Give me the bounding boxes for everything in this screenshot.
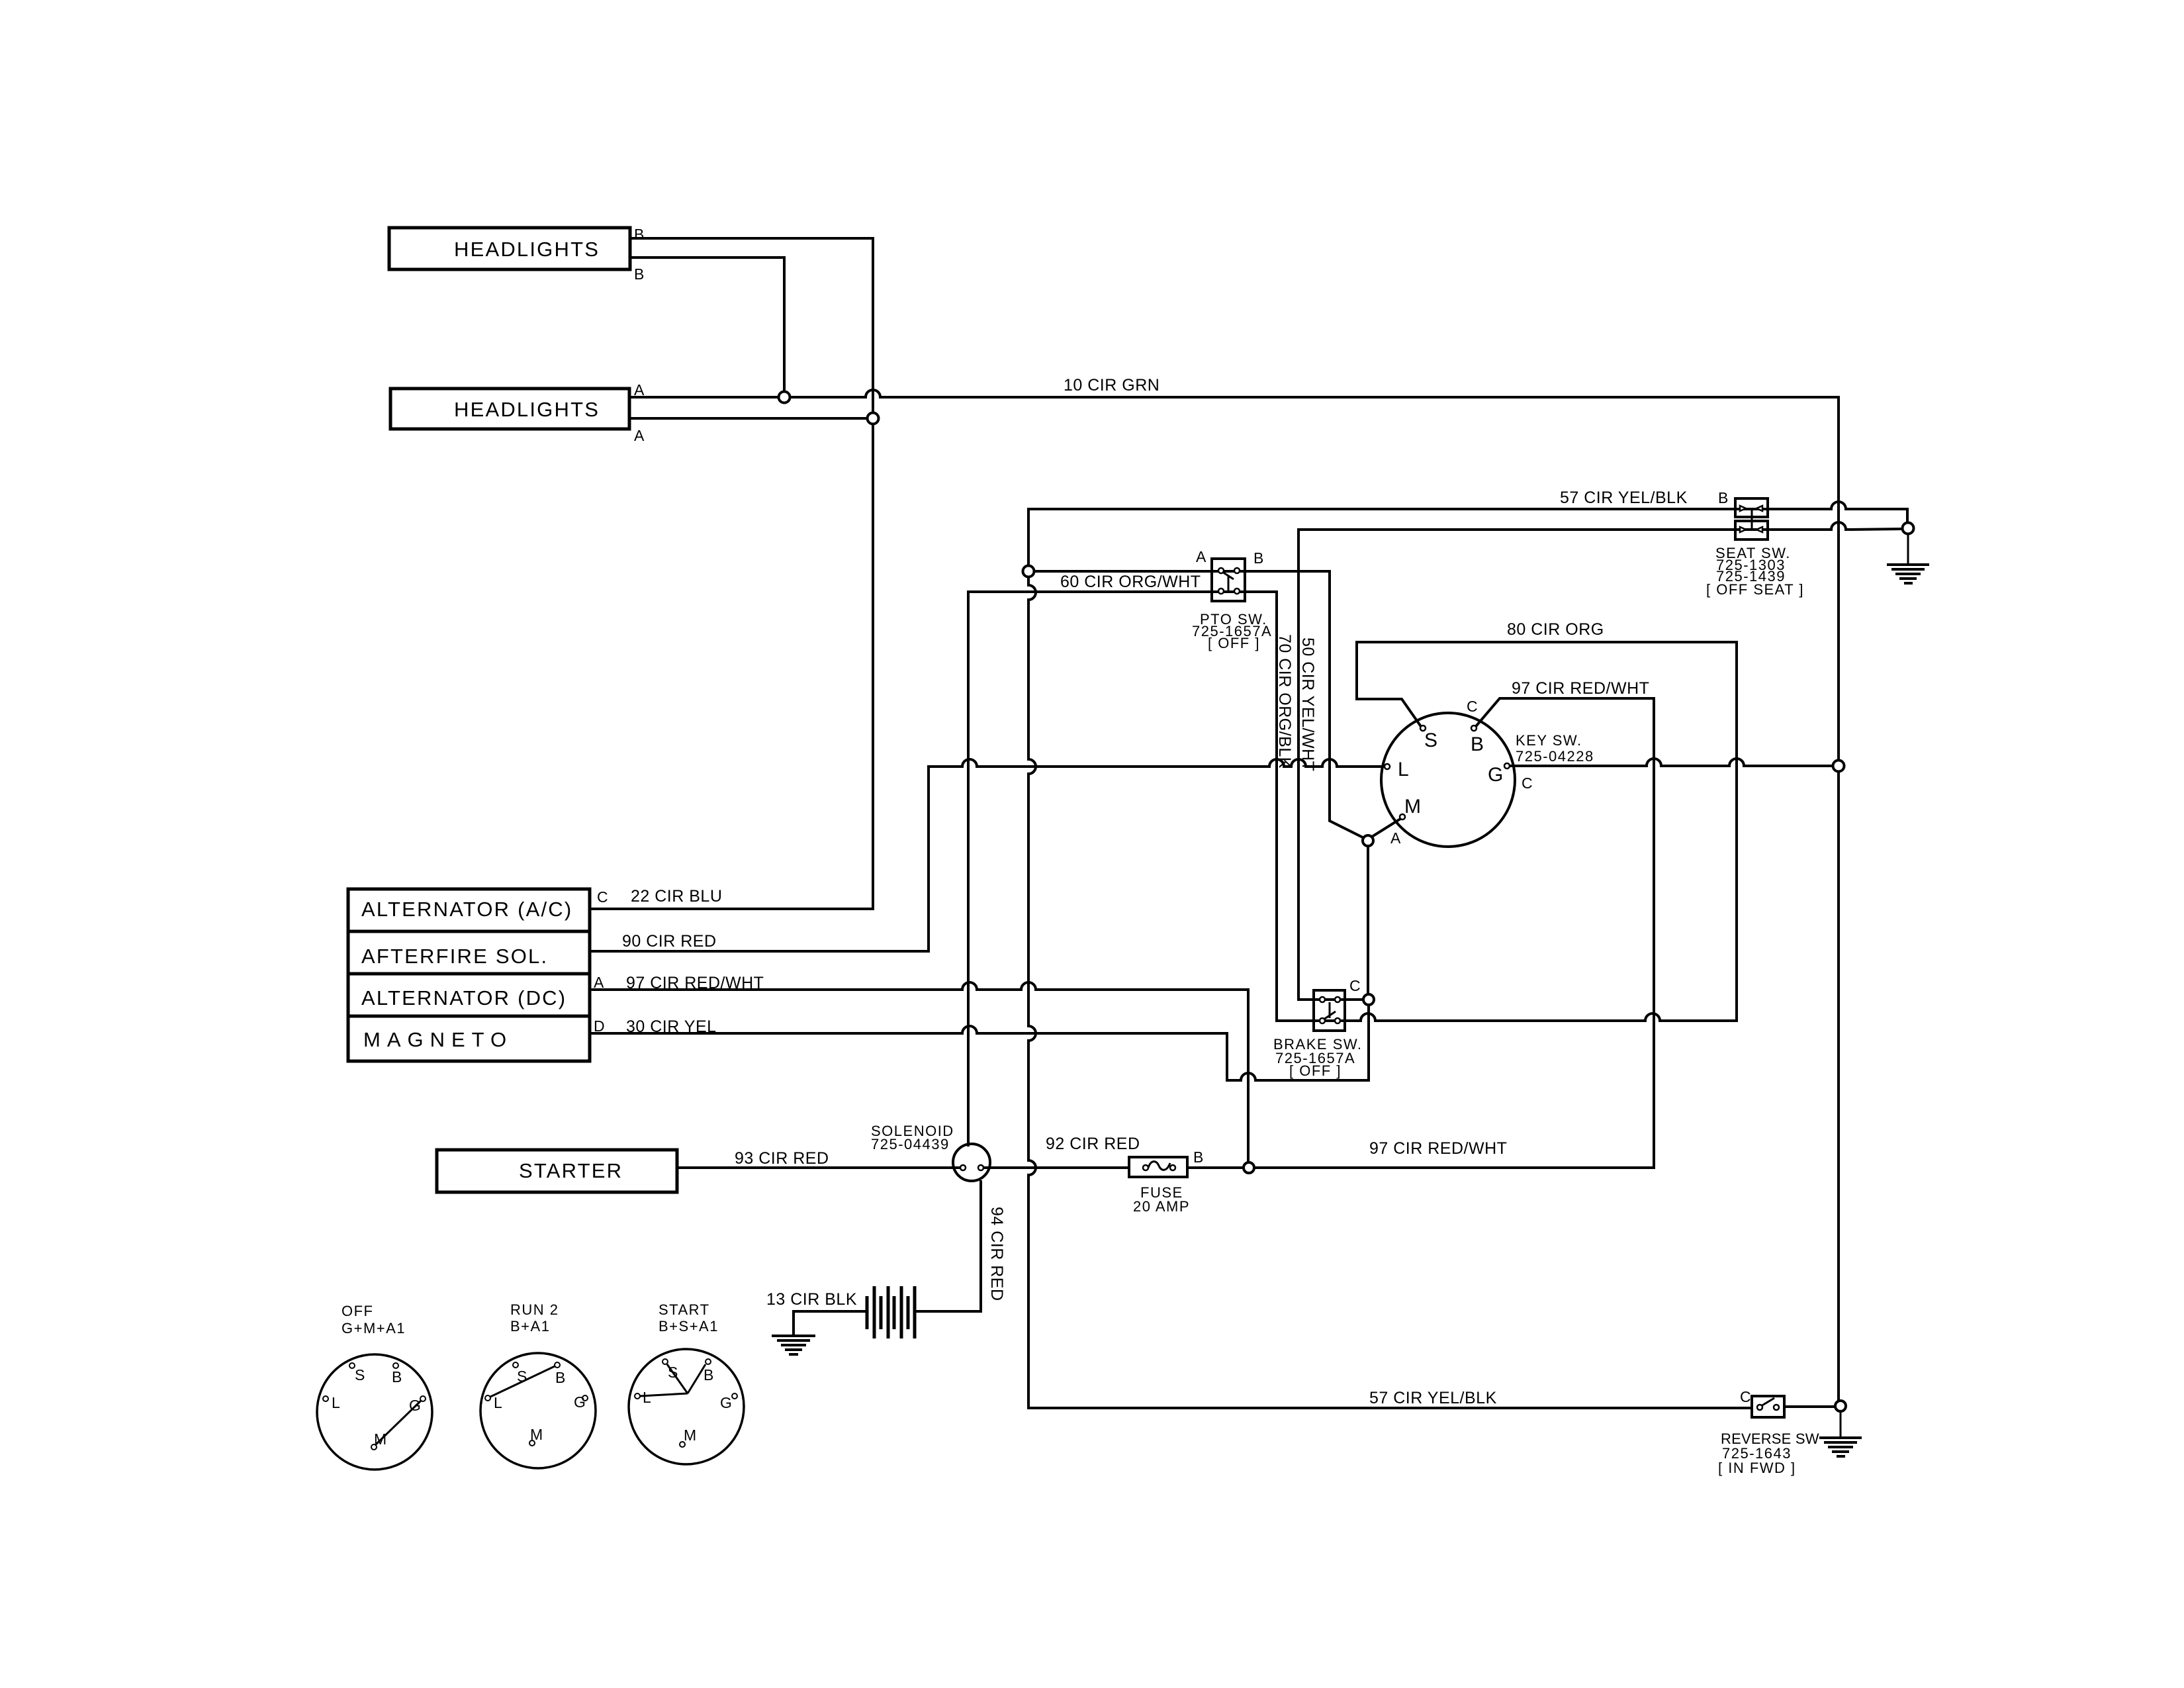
svg-text:57 CIR YEL/BLK: 57 CIR YEL/BLK: [1560, 489, 1688, 507]
junction: M-tie node A: [1363, 835, 1373, 846]
svg-text:30 CIR YEL: 30 CIR YEL: [626, 1017, 717, 1036]
svg-text:KEY SW.: KEY SW.: [1516, 732, 1582, 749]
svg-text:A: A: [634, 427, 645, 444]
svg-text:G: G: [574, 1393, 586, 1411]
svg-text:L: L: [643, 1389, 651, 1406]
svg-text:AFTERFIRE SOL.: AFTERFIRE SOL.: [361, 945, 548, 968]
svg-text:HEADLIGHTS: HEADLIGHTS: [454, 238, 600, 261]
junction: key switch G row to right bus: [1833, 761, 1844, 772]
START circle contacts: [635, 1359, 737, 1447]
wire 97 CIR RED/WHT: key switch B contact up to bus riser down to fuse row: [1477, 698, 1654, 1168]
ground (battery negative): [772, 1336, 815, 1354]
wire 97 CIR RED/WHT: ALTERNATOR (DC) run with hops, riser to fuse tee: [590, 982, 1248, 1163]
wire 57 CIR YEL/BLK: left riser with hops, bottom run to reverse switch: [1028, 510, 1752, 1408]
junction: brake switch C node: [1363, 994, 1374, 1005]
seat switch contacts: [1740, 506, 1762, 532]
svg-text:C: C: [1522, 774, 1533, 792]
svg-text:C: C: [1740, 1388, 1751, 1405]
svg-text:22 CIR BLU: 22 CIR BLU: [631, 887, 722, 906]
component: brake switch 725-1657A body: [1314, 990, 1345, 1031]
PTO switch link: [1228, 575, 1230, 591]
svg-text:S: S: [355, 1366, 365, 1383]
svg-text:10 CIR GRN: 10 CIR GRN: [1064, 376, 1160, 395]
component: key position diagram START circle: [629, 1349, 744, 1464]
component: key switch 725-04228 body: [1381, 713, 1515, 847]
key switch contacts S B L G M: [1385, 726, 1510, 820]
wire: M-tie junction diagonal up to key switch M contact: [1372, 819, 1400, 837]
svg-text:[ OFF SEAT ]: [ OFF SEAT ]: [1706, 581, 1804, 598]
component: PTO switch 725-1657A body: [1212, 559, 1245, 601]
component: alternator/afterfire/alternator-dc/magneto box stack: [348, 889, 590, 1061]
wire: upper headlights pin B (top) to riser corner: [630, 237, 873, 240]
svg-text:B: B: [1718, 489, 1728, 506]
svg-text:START: START: [659, 1301, 710, 1318]
battery 13 CIR BLK (plates): [867, 1286, 915, 1338]
svg-text:B: B: [704, 1366, 713, 1383]
svg-text:B+A1: B+A1: [510, 1318, 550, 1335]
component: fuse 20 AMP body: [1129, 1157, 1187, 1177]
wire 50 CIR YEL/WHT: riser down to brake switch top row: [1298, 530, 1363, 1000]
svg-text:94 CIR RED: 94 CIR RED: [987, 1207, 1006, 1301]
component: key position diagram OFF circle: [317, 1354, 432, 1470]
svg-text:ALTERNATOR (A/C): ALTERNATOR (A/C): [361, 898, 572, 921]
svg-text:97 CIR RED/WHT: 97 CIR RED/WHT: [626, 974, 764, 992]
svg-text:D: D: [594, 1017, 605, 1035]
RUN 2 circle contacts: [485, 1362, 588, 1446]
wire 60 CIR ORG/WHT: tap junction to PTO switch top row: [1034, 570, 1330, 573]
wire: reverse ground stem: [1840, 1411, 1842, 1438]
svg-text:A: A: [1390, 829, 1401, 847]
svg-text:B: B: [634, 226, 644, 243]
ground (reverse switch): [1819, 1438, 1862, 1456]
wire: upper headlights pin B (bottom) to junction on 10 CIR GRN: [630, 258, 784, 397]
svg-text:725-04439: 725-04439: [871, 1136, 950, 1152]
svg-text:13 CIR BLK: 13 CIR BLK: [766, 1290, 857, 1309]
wire: key switch G contact to right bus junction with hops: [1510, 759, 1833, 766]
svg-text:M: M: [374, 1430, 387, 1448]
svg-text:97 CIR RED/WHT: 97 CIR RED/WHT: [1369, 1139, 1507, 1158]
wire 80 CIR ORG: riser and top run to key switch S contact: [1357, 642, 1737, 1021]
RUN 2 circle blade L-B: [490, 1366, 555, 1397]
OFF circle contacts: [323, 1363, 426, 1450]
svg-text:A: A: [1196, 548, 1206, 565]
svg-text:C: C: [597, 888, 608, 906]
wire: seat ground stem: [1907, 534, 1909, 565]
svg-text:B: B: [1193, 1149, 1203, 1166]
wire: PTO B drop down and diagonal to M-tie junction: [1330, 571, 1364, 838]
component box: STARTER: [437, 1150, 677, 1192]
svg-text:L: L: [494, 1394, 502, 1411]
svg-text:B: B: [1471, 733, 1484, 755]
OFF circle blade G-M: [376, 1401, 421, 1444]
svg-text:OFF: OFF: [341, 1303, 374, 1319]
seat switch link: [1751, 508, 1753, 530]
solenoid contact pins: [960, 1165, 966, 1170]
svg-text:M: M: [530, 1426, 543, 1443]
svg-text:80 CIR ORG: 80 CIR ORG: [1507, 620, 1604, 639]
wire: fuse output to tee junction: [1176, 1166, 1244, 1169]
svg-text:B: B: [555, 1369, 565, 1386]
ground (seat switch): [1887, 565, 1929, 583]
wire: reverse switch output to bus junction: [1784, 1405, 1833, 1408]
svg-text:B+S+A1: B+S+A1: [659, 1318, 719, 1335]
component box: HEADLIGHTS (upper): [389, 228, 630, 269]
PTO switch blade: [1222, 572, 1234, 579]
svg-text:STARTER: STARTER: [519, 1159, 623, 1182]
wire 92 CIR RED: solenoid to fuse: [983, 1166, 1143, 1169]
svg-text:50 CIR YEL/WHT: 50 CIR YEL/WHT: [1298, 637, 1317, 771]
fuse element curve: [1148, 1162, 1170, 1170]
wire 97 CIR RED/WHT: brake lower output right, hops, to 80-ORG riser: [1345, 1013, 1737, 1021]
fuse contact pins: [1143, 1165, 1148, 1170]
wire: V4 riser from PTO lower row corner down to solenoid top: [967, 592, 970, 1145]
svg-text:G: G: [720, 1394, 732, 1411]
svg-text:90 CIR RED: 90 CIR RED: [622, 932, 717, 951]
svg-text:20 AMP: 20 AMP: [1133, 1198, 1190, 1215]
reverse switch blade: [1761, 1398, 1774, 1406]
wire: lower headlights pin A (bottom) to junction: [629, 417, 867, 420]
svg-text:C: C: [1467, 698, 1478, 715]
component: reverse switch 725-1643 body: [1752, 1396, 1784, 1417]
wire 97 CIR RED/WHT: fuse tee to corner riser at right: [1254, 1166, 1654, 1169]
wire: M-tie junction drop to brake switch C junction: [1367, 846, 1369, 994]
svg-text:L: L: [332, 1394, 340, 1411]
svg-text:RUN 2: RUN 2: [510, 1301, 559, 1318]
brake switch link: [1329, 1002, 1331, 1018]
svg-text:B: B: [1253, 549, 1263, 567]
wire 70 CIR ORG/BLK: PTO lower row down to brake switch lower row: [968, 592, 1345, 1021]
wire 50 CIR YEL/WHT: seat switch lower row to ground junction, hop over bus: [1298, 522, 1902, 530]
junction: fuse output tee on starter row: [1244, 1162, 1254, 1173]
svg-text:57 CIR YEL/BLK: 57 CIR YEL/BLK: [1369, 1389, 1497, 1407]
svg-text:HEADLIGHTS: HEADLIGHTS: [454, 398, 600, 421]
svg-text:G: G: [409, 1397, 421, 1414]
component: key position diagram RUN 2 circle: [480, 1353, 596, 1468]
svg-text:97 CIR RED/WHT: 97 CIR RED/WHT: [1512, 679, 1649, 698]
svg-text:M: M: [684, 1427, 696, 1444]
wire 13 CIR BLK: battery negative to ground: [794, 1311, 866, 1336]
wire 10 CIR GRN: lower headlights pin A (top) to right-side bus, hop over riser: [629, 390, 1839, 397]
svg-text:ALTERNATOR (DC): ALTERNATOR (DC): [361, 986, 567, 1009]
wire 94 CIR RED: solenoid bottom down to battery positive: [917, 1182, 981, 1311]
svg-text:70 CIR ORG/BLK: 70 CIR ORG/BLK: [1275, 634, 1294, 769]
junction: reverse switch ground node: [1835, 1401, 1846, 1411]
wire: right-side vertical bus (10 CIR GRN / ground return): [1837, 397, 1840, 1406]
component: seat switch 725-1303/725-1439 body (two sections): [1735, 498, 1768, 517]
svg-text:G: G: [1488, 764, 1503, 786]
svg-text:725-04228: 725-04228: [1516, 748, 1594, 765]
svg-text:G+M+A1: G+M+A1: [341, 1320, 406, 1336]
wire 57 CIR YEL/BLK: top run to seat switch B: [1028, 508, 1768, 510]
svg-text:92 CIR RED: 92 CIR RED: [1046, 1135, 1140, 1153]
component box: HEADLIGHTS (lower): [390, 389, 629, 429]
svg-text:S: S: [517, 1368, 527, 1385]
START circle blades L/S/B to common: [640, 1364, 705, 1396]
wire: seat switch B output to ground junction, hop over bus: [1768, 502, 1907, 522]
svg-text:A: A: [634, 381, 645, 399]
brake switch blade: [1324, 1011, 1336, 1019]
svg-text:M: M: [1404, 796, 1421, 818]
junction: headlights B-to-A tie (left): [779, 392, 790, 403]
reverse switch contacts: [1757, 1405, 1779, 1410]
svg-text:B: B: [634, 265, 644, 283]
PTO switch contacts: [1218, 568, 1240, 594]
junction: 60 CIR ORG/WHT tap on 57 riser: [1023, 566, 1034, 577]
svg-text:A: A: [594, 974, 604, 991]
component: solenoid 725-04439 body: [953, 1144, 990, 1181]
svg-text:B: B: [392, 1368, 402, 1385]
svg-text:[ IN FWD ]: [ IN FWD ]: [1718, 1460, 1796, 1476]
svg-text:MAGNETO: MAGNETO: [363, 1028, 513, 1051]
junction: headlights riser to A-bottom tie (right): [868, 413, 879, 424]
brake switch contacts: [1320, 997, 1340, 1023]
wire: key switch L row from 90-RED riser with hops: [590, 759, 1385, 951]
svg-text:[ OFF ]: [ OFF ]: [1289, 1062, 1342, 1079]
svg-text:60 CIR ORG/WHT: 60 CIR ORG/WHT: [1060, 573, 1201, 591]
svg-text:93 CIR RED: 93 CIR RED: [735, 1149, 829, 1168]
wire 22 CIR BLU: riser bottom to ALTERNATOR (A/C): [590, 908, 873, 910]
svg-text:S: S: [1424, 729, 1437, 751]
junction: seat switch ground node: [1903, 523, 1914, 534]
svg-text:[ OFF ]: [ OFF ]: [1208, 635, 1260, 651]
svg-text:S: S: [668, 1364, 678, 1381]
svg-text:L: L: [1398, 759, 1409, 780]
wire 30 CIR YEL: MAGNETO to brake C junction via under-run, hops: [590, 1005, 1369, 1080]
wire 93 CIR RED: starter to solenoid: [677, 1166, 960, 1169]
wire: riser from upper headlights B down past junctions (becomes 22 CIR BLU drop): [872, 238, 874, 909]
svg-text:C: C: [1349, 977, 1361, 994]
